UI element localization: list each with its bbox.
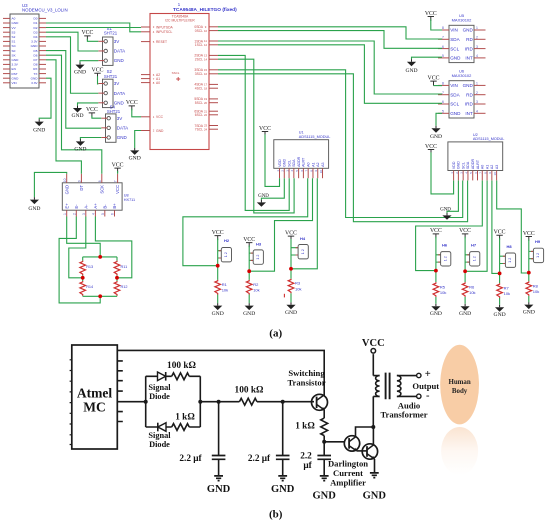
diode loop top wire xyxy=(146,375,201,377)
svg-text:GND: GND xyxy=(207,484,231,495)
svg-text:Atmel: Atmel xyxy=(77,386,112,401)
resistor R1 10k xyxy=(215,280,221,295)
svg-text:IRD: IRD xyxy=(465,102,474,107)
wire Q3 emitter to gnd xyxy=(374,459,376,473)
pin 5 B- xyxy=(104,210,106,216)
svg-text:A2: A2 xyxy=(490,165,494,169)
module U3 NODEMCU_V3_LOLIN xyxy=(10,14,39,88)
wire to series resistor xyxy=(200,401,239,403)
svg-text:5: 5 xyxy=(442,110,444,114)
pin 21 6SDA xyxy=(209,110,218,112)
resistor R6 10k xyxy=(462,282,468,297)
wire 2SCL to U1 SDA xyxy=(218,59,294,213)
svg-text:GND: GND xyxy=(405,68,417,74)
svg-text:ADDR: ADDR xyxy=(471,159,475,170)
svg-text:22: 22 xyxy=(204,113,208,117)
wire U2 GND xyxy=(447,181,458,214)
svg-text:GND: GND xyxy=(463,28,474,33)
svg-text:GND: GND xyxy=(74,70,86,76)
resistor R12 xyxy=(114,281,120,296)
svg-text:U8: U8 xyxy=(124,193,129,197)
resistor R3 10k xyxy=(288,279,294,294)
capacitor 2.2uf C1 xyxy=(212,456,226,460)
pin D2 (right 3) xyxy=(39,27,46,29)
wire H6 divider xyxy=(435,237,437,304)
pin 4 INPUTSCL xyxy=(141,31,150,33)
wire U2 A1 to H7 xyxy=(467,181,488,272)
pin 9 0SDA xyxy=(209,26,218,28)
svg-text:1: 1 xyxy=(476,82,478,86)
svg-text:D7: D7 xyxy=(34,58,38,62)
svg-text:GND: GND xyxy=(31,44,39,48)
svg-text:VCC: VCC xyxy=(86,107,98,113)
svg-text:A2: A2 xyxy=(316,162,320,166)
pin 7 VCC xyxy=(117,174,119,183)
pin 20 5SCL xyxy=(209,102,218,104)
svg-text:Amplifier: Amplifier xyxy=(330,478,366,488)
svg-text:SDA: SDA xyxy=(466,161,470,169)
svg-text:S0: S0 xyxy=(12,49,16,53)
wire HX711 GND xyxy=(34,172,66,197)
svg-text:GND: GND xyxy=(523,310,535,316)
junction bridge left xyxy=(81,276,85,280)
resistor R2 10k xyxy=(246,280,252,295)
connector H9 xyxy=(529,251,534,258)
IC TCA9548A_HILETGO I2C multiplexer xyxy=(150,14,209,150)
ground R1 xyxy=(217,303,219,305)
junction cap2 xyxy=(281,400,285,404)
svg-text:VCC: VCC xyxy=(523,231,535,237)
svg-text:1 2: 1 2 xyxy=(472,256,476,261)
red tick near R3 xyxy=(283,294,285,298)
wire NodeMCU GND xyxy=(39,78,51,119)
svg-text:SDA: SDA xyxy=(292,159,296,167)
svg-text:0SCL: 0SCL xyxy=(195,29,203,33)
svg-text:SCL: SCL xyxy=(461,162,465,169)
svg-text:8: 8 xyxy=(98,180,102,182)
svg-text:DATA: DATA xyxy=(114,91,125,96)
svg-text:A-: A- xyxy=(83,204,88,209)
svg-text:4SCL: 4SCL xyxy=(195,87,203,91)
svg-text:16: 16 xyxy=(204,72,208,76)
svg-text:A0: A0 xyxy=(306,162,310,166)
audio transformer secondary xyxy=(397,376,401,397)
svg-text:1: 1 xyxy=(63,213,67,215)
wire 2SDA to U1 SCL xyxy=(218,55,289,210)
pin D3 (right 4) xyxy=(39,31,46,33)
pin 19 5SDA xyxy=(209,98,218,100)
svg-text:R11: R11 xyxy=(121,265,128,269)
svg-text:GND: GND xyxy=(285,310,297,316)
svg-text:ALRT: ALRT xyxy=(302,157,306,167)
svg-text:1 2: 1 2 xyxy=(536,253,540,258)
pin SK (left 9) xyxy=(3,54,10,56)
svg-text:100 kΩ: 100 kΩ xyxy=(235,386,264,396)
junction H7 xyxy=(463,269,467,273)
ground below NodeMCU xyxy=(38,119,40,121)
pin GND (right 7) xyxy=(39,45,46,47)
svg-text:Body: Body xyxy=(452,388,468,395)
svg-text:6: 6 xyxy=(442,100,444,104)
svg-text:B-: B- xyxy=(102,204,107,209)
resistor R8 10k xyxy=(526,281,532,296)
svg-text:IRD: IRD xyxy=(465,46,474,51)
svg-text:GND: GND xyxy=(156,129,164,133)
svg-text:12: 12 xyxy=(204,43,208,47)
svg-text:A3: A3 xyxy=(321,162,325,166)
svg-text:3.3V: 3.3V xyxy=(12,63,19,67)
svg-text:GND: GND xyxy=(243,311,255,317)
svg-text:Diode: Diode xyxy=(149,440,170,449)
wire U2 A0 to H6 xyxy=(416,181,483,271)
wire cap1 lead xyxy=(218,402,220,456)
wire U1 A0 to H2 xyxy=(183,178,308,265)
svg-text:GND: GND xyxy=(440,207,451,212)
wire D4 to S2 DATA xyxy=(46,37,98,93)
wire 3SDA to U2 SCL xyxy=(218,70,463,218)
pin 3 A- xyxy=(85,210,87,216)
junction bridge top xyxy=(98,255,102,259)
wire H7 divider xyxy=(464,237,466,304)
svg-text:Switching: Switching xyxy=(288,368,325,378)
wire S2 GND xyxy=(78,103,99,106)
wire H8 divider xyxy=(499,238,501,305)
svg-text:S1: S1 xyxy=(12,40,16,44)
pin S3 (left 4) xyxy=(3,31,10,33)
pin 1 VCC xyxy=(141,116,150,118)
wire cap2 lead xyxy=(282,402,284,456)
wire S1 GND xyxy=(80,61,98,63)
output terminal plus xyxy=(417,373,421,377)
svg-text:VIN: VIN xyxy=(450,28,458,33)
svg-text:GND: GND xyxy=(74,146,86,152)
wire D7 to HX711 DT xyxy=(46,60,81,174)
pin 12 1SCL xyxy=(209,44,218,46)
pin 4 A+ xyxy=(94,210,96,216)
wire VCC to U6 VIN xyxy=(434,85,443,87)
pin 23 7SDA xyxy=(209,125,218,127)
svg-text:3: 3 xyxy=(82,213,86,215)
wire H9 divider xyxy=(528,239,530,302)
svg-text:VCC: VCC xyxy=(494,230,506,236)
audio transformer primary xyxy=(373,354,379,427)
wire xyxy=(83,257,117,296)
svg-text:1 2: 1 2 xyxy=(508,258,512,263)
pin 2 E- xyxy=(75,210,77,216)
resistor 100k series xyxy=(239,398,257,405)
svg-text:INT: INT xyxy=(465,111,473,116)
svg-text:H8: H8 xyxy=(506,244,512,249)
pin 14 2SCL xyxy=(209,58,218,60)
svg-text:D8: D8 xyxy=(34,63,38,67)
wire VCC to S2 3V xyxy=(97,76,100,84)
pin D6 (right 9) xyxy=(39,54,46,56)
pin 15 3SDA xyxy=(209,69,218,71)
svg-text:3: 3 xyxy=(476,100,478,104)
signal diode D1 xyxy=(158,372,166,381)
svg-text:100 kΩ: 100 kΩ xyxy=(167,361,196,371)
svg-text:VCC: VCC xyxy=(92,68,104,74)
svg-text:9: 9 xyxy=(78,180,82,182)
svg-text:GND: GND xyxy=(430,311,442,317)
pin D4 (right 5) xyxy=(39,36,46,38)
svg-text:D1: D1 xyxy=(34,21,38,25)
svg-text:GND: GND xyxy=(313,490,337,501)
pin 10 GND xyxy=(66,174,68,183)
svg-text:ADS1115_MODUL: ADS1115_MODUL xyxy=(473,137,505,141)
pin A0 (left 1) xyxy=(3,17,10,19)
ground C2 xyxy=(278,476,287,481)
svg-text:R12: R12 xyxy=(121,285,128,289)
ground U1 xyxy=(260,200,262,202)
svg-text:GND: GND xyxy=(114,58,125,63)
svg-text:D4: D4 xyxy=(34,35,38,39)
svg-text:18: 18 xyxy=(204,86,208,90)
capacitor 2.2uf C3 xyxy=(317,456,331,460)
svg-text:VCC: VCC xyxy=(459,228,471,234)
connector H7 xyxy=(465,255,470,262)
pin 10 0SCL xyxy=(209,30,218,32)
svg-text:1: 1 xyxy=(476,26,478,30)
svg-text:RST: RST xyxy=(12,72,18,76)
svg-text:5SCL: 5SCL xyxy=(195,101,203,105)
junction H4 xyxy=(289,267,293,271)
svg-text:INPUTSDA: INPUTSDA xyxy=(156,25,173,29)
svg-text:H9: H9 xyxy=(535,239,541,244)
pin 1 E+ xyxy=(66,210,68,216)
wire cap3 lead xyxy=(323,442,325,456)
wire TCA GND xyxy=(135,131,141,149)
wire 1SCL to U6 SCL xyxy=(218,45,442,104)
svg-text:RESET: RESET xyxy=(156,40,167,44)
junction H2 xyxy=(216,264,220,268)
svg-text:R7: R7 xyxy=(504,285,510,290)
svg-text:R1: R1 xyxy=(222,282,228,287)
connector H8 xyxy=(500,256,506,263)
svg-text:D6: D6 xyxy=(34,53,38,57)
Atmel MC left ticks xyxy=(70,360,72,445)
svg-text:10: 10 xyxy=(204,29,208,33)
svg-text:10: 10 xyxy=(493,172,497,176)
svg-text:GND: GND xyxy=(459,311,471,317)
ground HX711 xyxy=(33,197,35,199)
wire VCC to S4 3V xyxy=(92,116,101,118)
svg-text:SHT21: SHT21 xyxy=(104,31,118,36)
resistor R13 xyxy=(80,261,86,276)
resistor 100k feedback xyxy=(172,373,190,380)
svg-text:2: 2 xyxy=(72,213,76,215)
pin 3 INPUTSDA xyxy=(141,26,150,28)
svg-text:4: 4 xyxy=(476,54,478,58)
pin GND (left 14) xyxy=(3,77,10,79)
ground U6 xyxy=(435,126,437,128)
pin 3.3V (right 6) xyxy=(39,40,46,42)
resistor 1k xyxy=(321,418,328,436)
svg-text:μf: μf xyxy=(303,461,312,471)
svg-text:GND: GND xyxy=(258,194,269,199)
connector H6 xyxy=(436,255,441,262)
svg-text:HX711: HX711 xyxy=(124,198,135,202)
junction H6 xyxy=(434,269,438,273)
red cross marker xyxy=(176,77,180,81)
IC U5 MAX30102 xyxy=(449,25,474,62)
svg-text:3: 3 xyxy=(476,45,478,49)
svg-text:GND: GND xyxy=(12,58,20,62)
wire emitter to 1k xyxy=(323,410,325,418)
pin GND (right 14) xyxy=(39,77,46,79)
svg-text:VCC: VCC xyxy=(115,185,120,194)
svg-text:H3: H3 xyxy=(256,241,262,246)
svg-text:7: 7 xyxy=(442,91,444,95)
wire U1 A2 to H4 xyxy=(292,178,317,268)
svg-text:A0: A0 xyxy=(12,17,16,21)
svg-text:VCC: VCC xyxy=(259,126,271,132)
svg-text:GND: GND xyxy=(450,111,461,116)
svg-text:3V: 3V xyxy=(114,39,120,44)
wire VCC to U1 VDD xyxy=(265,134,280,186)
junction diode network input xyxy=(144,400,148,404)
svg-text:GND: GND xyxy=(12,76,20,80)
svg-text:TX: TX xyxy=(34,72,38,76)
svg-text:DATA: DATA xyxy=(114,49,125,54)
svg-text:SCK: SCK xyxy=(99,185,104,194)
wire 0SDA to U5 SDA xyxy=(218,27,442,39)
pin D7 (right 10) xyxy=(39,59,46,61)
pin D0 (right 1) xyxy=(39,17,46,19)
pin 2 GND xyxy=(141,130,150,132)
Atmel MC pin stubs xyxy=(117,361,123,422)
wire xyxy=(69,217,86,278)
svg-text:VCC: VCC xyxy=(112,162,124,168)
svg-text:S2: S2 xyxy=(12,35,16,39)
junction H9 xyxy=(527,271,531,275)
svg-text:R13: R13 xyxy=(86,265,93,269)
svg-text:R2: R2 xyxy=(253,282,259,287)
svg-text:4: 4 xyxy=(92,213,96,215)
junction cap3 xyxy=(322,440,326,444)
svg-text:3SCL: 3SCL xyxy=(195,72,203,76)
svg-text:D3: D3 xyxy=(34,30,38,34)
svg-text:A1: A1 xyxy=(485,165,489,169)
connector H3 xyxy=(249,253,253,260)
svg-text:1 kΩ: 1 kΩ xyxy=(175,413,195,423)
pin 6 A2 xyxy=(141,74,150,76)
wire H4 divider xyxy=(290,239,292,302)
svg-text:VCC: VCC xyxy=(430,228,442,234)
svg-text:24: 24 xyxy=(204,127,208,131)
svg-text:RX: RX xyxy=(33,67,37,71)
svg-text:1 kΩ: 1 kΩ xyxy=(295,422,315,432)
svg-text:GND: GND xyxy=(430,134,442,140)
pin GND (left 10) xyxy=(3,59,10,61)
svg-text:H4: H4 xyxy=(300,236,306,241)
wire VCC to U2 VDD xyxy=(431,152,454,194)
svg-text:20: 20 xyxy=(204,101,208,105)
transformer core xyxy=(386,373,390,400)
wire H2 divider xyxy=(217,239,219,304)
module U2 ADS1115_MODUL xyxy=(448,142,503,171)
svg-text:2.2 μf: 2.2 μf xyxy=(248,454,271,464)
svg-text:GND: GND xyxy=(450,56,461,61)
svg-text:SHT21: SHT21 xyxy=(104,74,118,79)
svg-text:10k: 10k xyxy=(504,291,510,296)
pin 8 SCK xyxy=(101,174,103,183)
signal diode D2 xyxy=(158,423,166,432)
wire 1SDA to U6 SDA xyxy=(218,41,442,94)
wire xyxy=(95,217,131,278)
module U1 ADS1115_MODUL xyxy=(274,140,329,169)
ground U2 xyxy=(446,213,448,215)
junction H3 xyxy=(247,269,251,273)
ground R5 xyxy=(435,304,437,306)
wire VCC to S1 3V xyxy=(87,39,98,42)
pin 16 3SCL xyxy=(209,73,218,75)
wire xyxy=(67,217,101,256)
svg-text:RD: RD xyxy=(466,92,473,97)
svg-text:GND: GND xyxy=(457,161,461,169)
svg-text:2.2 μf: 2.2 μf xyxy=(179,454,202,464)
svg-text:A0: A0 xyxy=(156,81,160,85)
svg-text:GND: GND xyxy=(283,159,287,167)
svg-text:1 2: 1 2 xyxy=(443,256,447,261)
wire VCC to TCA xyxy=(132,109,141,117)
svg-text:SDA: SDA xyxy=(450,37,460,42)
svg-text:EN: EN xyxy=(12,67,16,71)
pin 8 A0 xyxy=(141,82,150,84)
svg-text:GND: GND xyxy=(33,128,45,134)
svg-text:1 2: 1 2 xyxy=(256,255,260,260)
svg-text:-: - xyxy=(426,391,430,402)
svg-text:DATA: DATA xyxy=(117,125,128,130)
svg-text:Transformer: Transformer xyxy=(380,410,427,420)
svg-text:10k: 10k xyxy=(469,290,475,295)
pin 17 4SDA xyxy=(209,83,218,85)
svg-text:2: 2 xyxy=(476,36,478,40)
svg-text:Signal: Signal xyxy=(148,383,171,392)
svg-text:INPUTSCL: INPUTSCL xyxy=(156,30,172,34)
svg-text:A1: A1 xyxy=(311,162,315,166)
ground S2 xyxy=(77,106,79,108)
svg-text:S3: S3 xyxy=(12,30,16,34)
wire U1 GND xyxy=(261,178,284,200)
svg-text:ADS1115_MODUL: ADS1115_MODUL xyxy=(299,135,331,139)
svg-text:1 2: 1 2 xyxy=(301,249,305,254)
ground R7 xyxy=(499,305,501,307)
svg-text:10k: 10k xyxy=(295,286,301,291)
svg-text:H7: H7 xyxy=(471,242,477,247)
svg-text:10: 10 xyxy=(319,170,323,174)
svg-text:GND: GND xyxy=(129,155,141,161)
pin 5 RESET xyxy=(141,41,150,43)
connector H2 xyxy=(218,251,222,258)
pin 3.3V (left 11) xyxy=(3,63,10,65)
wire cap2 to gnd xyxy=(282,459,284,476)
svg-text:VCC: VCC xyxy=(425,11,437,17)
svg-text:VCC: VCC xyxy=(81,30,93,36)
ground S4 xyxy=(79,139,81,141)
ground R8 xyxy=(528,302,530,304)
wire U2 A2 to H8 xyxy=(492,181,498,274)
pin 18 4SCL xyxy=(209,87,218,89)
svg-text:8: 8 xyxy=(442,82,444,86)
junction diode network output xyxy=(198,400,202,404)
svg-text:5: 5 xyxy=(101,213,105,215)
wire U5 GND xyxy=(412,57,443,59)
wire series resistor to base xyxy=(257,401,314,403)
svg-text:GND: GND xyxy=(28,206,40,212)
svg-text:2SCL: 2SCL xyxy=(195,58,203,62)
svg-text:R14: R14 xyxy=(86,285,93,289)
